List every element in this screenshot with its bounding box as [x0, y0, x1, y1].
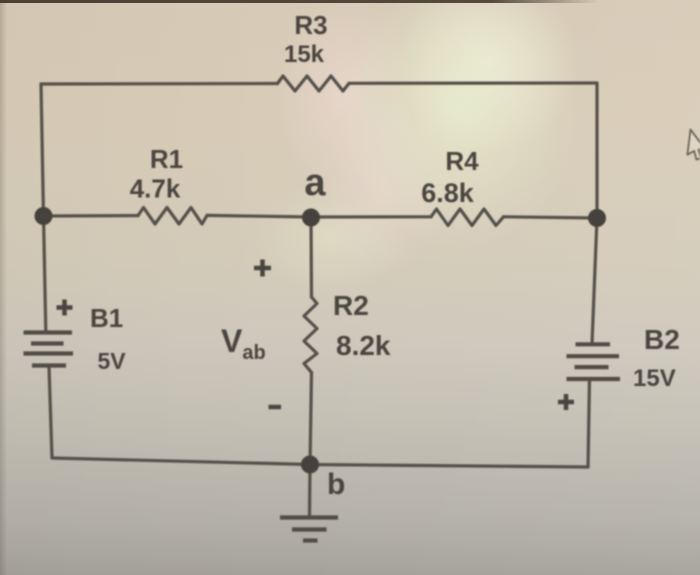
wire right vertical: top-right corner down to right node	[595, 83, 598, 218]
node junction right (middle rail / right rail)	[588, 209, 606, 227]
svg-text:B2: B2	[644, 324, 680, 355]
wire node a down to R2	[309, 218, 313, 298]
plus sign at battery B1	[57, 305, 73, 310]
battery B1 plate 2 (short)	[31, 341, 64, 345]
wire left node to R1	[44, 214, 139, 218]
svg-text:R2: R2	[333, 290, 369, 321]
ground bar 2 (middle)	[292, 527, 327, 531]
battery B1 plate 4 (short)	[32, 363, 66, 367]
battery B2 plate 2 (long)	[567, 354, 620, 358]
svg-text:R1: R1	[150, 144, 183, 174]
node junction left (middle rail / left rail)	[35, 207, 53, 225]
svg-text:15k: 15k	[284, 41, 325, 68]
battery B2 plate 1 (short)	[576, 342, 611, 346]
wire R4 to right node	[504, 217, 598, 218]
battery B1 plate 3 (long)	[24, 351, 74, 355]
battery B1 plate 1 (long, +)	[24, 330, 73, 334]
svg-text:4.7k: 4.7k	[130, 174, 181, 204]
resistor R1	[138, 208, 207, 225]
ground bar 3 (bottom, shortest)	[303, 538, 318, 542]
wire R2 down to node b	[310, 373, 312, 465]
svg-text:R4: R4	[445, 146, 479, 176]
svg-text:5V: 5V	[98, 348, 127, 374]
svg-text:b: b	[327, 468, 345, 501]
node b	[301, 456, 319, 474]
wire battery B2 bottom down to bottom-right corner	[588, 379, 590, 467]
wire R1 to node a	[207, 215, 311, 217]
wire bottom rail left: bottom-left corner to node b	[52, 458, 310, 465]
resistor R3	[278, 76, 350, 91]
svg-text:8.2k: 8.2k	[336, 330, 391, 361]
plus sign at battery B2	[558, 400, 574, 405]
resistor R2	[304, 297, 317, 373]
wire battery B1 bottom down to bottom-left corner	[49, 367, 52, 458]
svg-text:R3: R3	[294, 10, 327, 40]
svg-text:Vab: Vab	[221, 323, 266, 364]
svg-text:15V: 15V	[633, 365, 676, 392]
svg-text:B1: B1	[90, 303, 123, 333]
battery B2 plate 3 (short)	[575, 365, 609, 369]
wire left vertical: top-left corner down to left node	[41, 84, 44, 216]
wire bottom rail right: node b to bottom-right corner	[310, 465, 588, 468]
node a	[302, 209, 320, 227]
svg-text:6.8k: 6.8k	[421, 178, 475, 208]
minus sign for Vab	[269, 405, 282, 410]
mouse cursor	[687, 130, 700, 161]
wire R3 to top-right corner	[349, 81, 597, 85]
resistor R4	[431, 209, 504, 226]
dark strip at top edge of photo	[0, 0, 600, 3]
wire node b down to ground	[308, 465, 312, 517]
wire left node down to battery B1 top	[44, 216, 46, 331]
plus sign for Vab (near node a)	[254, 266, 271, 271]
wire top-left to top-right (top rail)	[41, 82, 278, 86]
wire right node down to battery B2 top	[592, 218, 597, 344]
wire node a to R4	[311, 215, 431, 218]
svg-text:a: a	[304, 162, 326, 204]
battery B2 plate 4 (long, +)	[567, 377, 621, 381]
ground bar 1 (top, widest)	[280, 515, 338, 519]
